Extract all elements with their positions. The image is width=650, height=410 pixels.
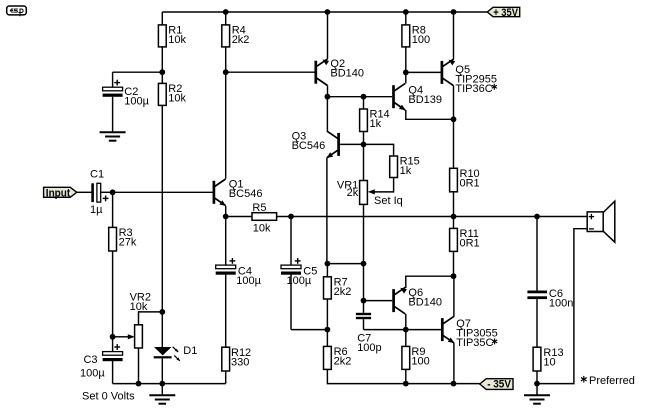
wire Q5 collector xyxy=(453,86,455,120)
node Q4e-Q5e-R10 xyxy=(451,116,457,122)
node R14 top xyxy=(361,94,367,100)
power tag +35V xyxy=(487,7,519,19)
svg-text:2k2: 2k2 xyxy=(232,34,250,46)
capacitor C6 xyxy=(527,217,573,348)
wire Q1 collector xyxy=(225,72,227,178)
capacitor C5 xyxy=(281,217,317,330)
VR2 wiper arrow xyxy=(128,334,135,339)
wire input node to Q1 base xyxy=(113,191,213,193)
svg-text:+ 35V: + 35V xyxy=(493,7,518,19)
wire input tag to C1 xyxy=(77,191,92,193)
resistor R14 xyxy=(360,97,390,145)
resistor R12 xyxy=(222,347,251,384)
wire VR2 wiper xyxy=(113,336,129,338)
svg-text:27k: 27k xyxy=(119,237,137,249)
svg-text:C3: C3 xyxy=(83,354,97,366)
wire C2 to R1-R2 node xyxy=(113,71,163,73)
transistor Q7 xyxy=(442,316,497,349)
svg-text:BC546: BC546 xyxy=(292,140,326,152)
svg-text:TIP36C: TIP36C xyxy=(455,83,492,95)
wire speaker return xyxy=(537,229,587,384)
wire +35V rail xyxy=(162,11,487,13)
label Preferred xyxy=(581,375,635,387)
svg-text:D1: D1 xyxy=(183,345,197,357)
svg-text:R5: R5 xyxy=(252,202,266,214)
wire Q4 emitter to Q5 emitter xyxy=(406,110,454,119)
label Set Iq xyxy=(374,195,403,207)
svg-text:100: 100 xyxy=(412,34,430,46)
resistor R11 xyxy=(450,217,480,277)
node R4-Q1-Q2base xyxy=(223,69,229,75)
svg-text:100: 100 xyxy=(411,356,429,368)
power tag -35V xyxy=(480,379,513,391)
svg-text:100n: 100n xyxy=(549,298,573,310)
svg-text:Set Iq: Set Iq xyxy=(374,195,403,207)
wire Q6 emitter xyxy=(406,276,454,288)
node VR1 bottom xyxy=(361,261,367,267)
capacitor C4 xyxy=(216,217,262,348)
node top rail R4 xyxy=(223,9,229,15)
svg-text:100µ: 100µ xyxy=(124,96,149,108)
node R11-Q6e-Q7c xyxy=(451,273,457,279)
resistor R13 xyxy=(533,347,563,384)
resistor R9 xyxy=(402,330,430,384)
node top rail R8 xyxy=(403,9,409,15)
transistor Q5 xyxy=(442,59,497,95)
node R9 bottom rail xyxy=(403,381,409,387)
svg-text:10k: 10k xyxy=(168,93,186,105)
svg-text:1µ: 1µ xyxy=(90,204,103,216)
wire Q6 collector xyxy=(405,314,407,330)
wire R7 node to VR1 bottom xyxy=(327,263,363,265)
ESP logo xyxy=(7,6,27,16)
resistor R6 xyxy=(324,330,352,370)
resistor R1 xyxy=(158,12,186,72)
transistor Q2 xyxy=(316,58,364,86)
node Q1-R5-C4 xyxy=(223,214,229,220)
ground below D1 xyxy=(149,395,175,403)
wire VR1 node to C7-Q6 xyxy=(363,264,365,301)
resistor R4 xyxy=(222,12,250,72)
ground below C2 xyxy=(100,132,126,140)
wire Q1 emitter to R5 xyxy=(226,216,252,218)
node D1 bottom rail xyxy=(159,381,165,387)
wire VR2 bottom xyxy=(138,348,140,384)
svg-text:0R1: 0R1 xyxy=(460,238,480,250)
node R3-C3-VR2wiper xyxy=(110,334,116,340)
transistor Q3 xyxy=(292,131,339,159)
wire Q4 collector xyxy=(405,72,407,83)
node R7 top xyxy=(325,261,331,267)
svg-text:TIP35C: TIP35C xyxy=(456,337,493,349)
svg-text:2k2: 2k2 xyxy=(334,286,352,298)
wire Q2 emitter to rail xyxy=(327,12,329,59)
LED D1 xyxy=(154,312,198,384)
wire Q2 collector xyxy=(327,86,329,97)
resistor R7 xyxy=(324,264,352,330)
wire R4 node to Q2 base xyxy=(226,71,315,73)
svg-text:Input: Input xyxy=(46,187,71,199)
svg-text:330: 330 xyxy=(231,356,249,368)
wire Q3 emitter xyxy=(326,158,328,264)
svg-text:10k: 10k xyxy=(130,301,148,313)
svg-text:BD140: BD140 xyxy=(330,67,364,79)
svg-text:BD140: BD140 xyxy=(408,297,442,309)
wire R3 to VR2 wiper node xyxy=(112,251,114,337)
node VR2 bottom rail xyxy=(136,381,142,387)
node R1-R2-C2 xyxy=(159,69,165,75)
label Set 0 Volts xyxy=(82,390,135,402)
svg-text:0R1: 0R1 xyxy=(460,178,480,190)
ground below R13 xyxy=(524,395,550,403)
wire Q1 emitter xyxy=(225,206,227,217)
wire D1 to ground xyxy=(161,384,163,396)
wire Q7 collector xyxy=(453,276,455,316)
wire R6 to -35V rail xyxy=(327,369,479,383)
wire R13 node to ground xyxy=(536,384,538,396)
wire Q3 base xyxy=(340,143,363,145)
svg-text:10: 10 xyxy=(543,356,555,368)
wire C1 to node xyxy=(101,191,113,193)
node C7-Q6 base xyxy=(361,298,367,304)
svg-text:Preferred: Preferred xyxy=(589,375,635,387)
wire VR1 bottom xyxy=(363,204,365,263)
wire R2 to D1 node xyxy=(161,105,163,312)
resistor R15 xyxy=(390,156,420,178)
node R13-ground-speaker xyxy=(534,381,540,387)
node Q2c-R14-Q4 row left xyxy=(325,94,331,100)
wire C5 bottom to R6-R7 node xyxy=(291,329,327,331)
svg-text:Set 0 Volts: Set 0 Volts xyxy=(82,390,135,402)
wire Q5 emitter to rail xyxy=(453,12,455,59)
svg-text:2k2: 2k2 xyxy=(334,356,352,368)
node rail R10-R11 xyxy=(451,214,457,220)
svg-text:BC546: BC546 xyxy=(229,188,263,200)
transistor Q4 xyxy=(394,83,443,110)
svg-text:2k: 2k xyxy=(347,187,359,199)
node rail C6 xyxy=(534,214,540,220)
svg-text:1k: 1k xyxy=(400,165,412,177)
node R14-Q3base-R15-VR1 xyxy=(361,142,367,148)
resistor R8 xyxy=(402,12,430,72)
wire bottom-left rail xyxy=(113,383,226,385)
wire R15 top xyxy=(364,144,394,156)
svg-text:10k: 10k xyxy=(168,34,186,46)
VR1 wiper arrow xyxy=(368,189,375,194)
resistor R5 xyxy=(252,202,277,235)
potentiometer VR2 xyxy=(130,292,151,348)
wire VR2 top xyxy=(139,312,163,325)
svg-text:BD139: BD139 xyxy=(408,94,442,106)
capacitor C2 xyxy=(103,72,150,107)
wire Q2c node to Q3 collector xyxy=(326,97,328,131)
node input-R3 xyxy=(110,189,116,195)
node top rail Q2 xyxy=(325,9,331,15)
wire Q7 emitter xyxy=(453,343,455,384)
node rail C5 xyxy=(288,214,294,220)
node Q7 emitter rail xyxy=(451,381,457,387)
svg-text:100µ: 100µ xyxy=(80,367,105,379)
svg-text:100µ: 100µ xyxy=(236,275,261,287)
capacitor C3 xyxy=(80,337,123,384)
wire Q2 collector to Q4 base xyxy=(327,96,392,98)
potentiometer VR1 xyxy=(337,144,368,204)
node R6-R7-C5 xyxy=(325,327,331,333)
capacitor C1 xyxy=(90,169,109,217)
svg-text:- 35V: - 35V xyxy=(487,379,512,391)
node Q6c-R9-Q7base xyxy=(403,327,409,333)
wire R15 bottom to VR1 wiper xyxy=(374,178,393,192)
node R2-VR2-D1 xyxy=(159,309,165,315)
wire C7 to Q7 base xyxy=(364,329,441,331)
input tag xyxy=(44,187,77,199)
svg-text:1k: 1k xyxy=(370,118,382,130)
wire Q6 base xyxy=(364,300,393,302)
svg-text:C1: C1 xyxy=(90,169,104,181)
wire C2 to ground xyxy=(112,97,114,133)
svg-text:100p: 100p xyxy=(357,342,381,354)
svg-text:10k: 10k xyxy=(253,222,271,234)
speaker LS1 xyxy=(587,201,615,242)
resistor R3 xyxy=(109,192,137,251)
wire R8 node to Q5 base xyxy=(406,71,441,73)
wire output rail xyxy=(277,216,588,218)
resistor R10 xyxy=(450,119,480,216)
transistor Q1 xyxy=(214,178,263,206)
resistor R2 xyxy=(158,72,186,105)
transistor Q6 xyxy=(394,287,442,314)
node R8-Q4c-Q5base xyxy=(403,70,409,76)
node top rail Q5 xyxy=(451,9,457,15)
capacitor C7 xyxy=(356,301,382,354)
